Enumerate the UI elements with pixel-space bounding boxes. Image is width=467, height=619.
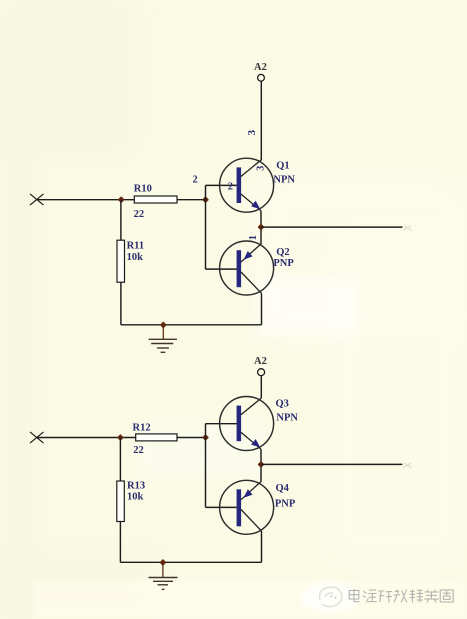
Q4 emitter pin	[241, 481, 262, 500]
Q1 base bar	[237, 167, 242, 203]
wire input horizontal (top)	[37, 199, 206, 201]
transistor Q3	[206, 397, 299, 451]
wire bottom (bottom circuit)	[120, 561, 261, 563]
svg-text:10k: 10k	[127, 252, 144, 263]
wire bottom (top circuit)	[121, 324, 262, 326]
svg-text:10k: 10k	[127, 492, 144, 503]
ghost mark at top output wire end	[403, 226, 412, 231]
svg-text:3: 3	[256, 166, 267, 171]
svg-text:22: 22	[134, 209, 145, 220]
Q2 base pin wire	[206, 268, 237, 270]
Q2 base bar	[237, 250, 242, 287]
junction output (bottom)	[258, 461, 265, 468]
svg-text:2: 2	[193, 175, 198, 186]
wire output (top)	[261, 226, 403, 228]
junction at base net (bottom)	[202, 434, 209, 441]
terminal A2 (top)	[258, 74, 265, 81]
terminal A2 (bottom)	[258, 369, 265, 376]
R10 body	[134, 196, 177, 203]
svg-text:A2: A2	[254, 356, 267, 367]
Q3 emitter arrow	[251, 439, 260, 448]
Q1 body circle	[220, 158, 274, 212]
Q4 collector pin	[241, 510, 262, 532]
junction at R13 tap	[117, 434, 124, 441]
junction at base net	[202, 196, 209, 203]
svg-text:PNP: PNP	[273, 258, 294, 269]
watermark logo	[320, 587, 342, 607]
svg-text:1: 1	[248, 235, 259, 240]
resistor R10	[134, 184, 177, 221]
ground (bottom)	[149, 562, 178, 589]
wire vertical base bus (bottom)	[205, 424, 207, 508]
ground bars	[149, 577, 178, 579]
node input cross (bottom)	[30, 432, 44, 443]
ground bars	[149, 338, 177, 340]
wire output (bottom)	[261, 463, 402, 465]
Q2 emitter arrow	[244, 251, 253, 260]
Q4 body circle	[220, 480, 274, 534]
ghost mark at bottom output wire end	[403, 463, 412, 468]
svg-text:A2: A2	[254, 62, 267, 73]
wire emitter to output node (top)	[260, 211, 262, 244]
svg-text:R10: R10	[134, 184, 152, 195]
wire R11 bottom lead	[120, 282, 122, 325]
ground stem	[162, 325, 164, 339]
wire vertical base bus (top)	[205, 185, 207, 269]
junction output (top)	[258, 224, 265, 231]
wire Q4 collector down (bottom circuit)	[261, 531, 263, 562]
wire Q2 collector down (top circuit)	[261, 293, 263, 325]
R13 body	[117, 481, 125, 522]
transistor Q1	[206, 158, 296, 212]
wire emitter to output node (bottom)	[260, 449, 262, 481]
Q3 base pin wire	[206, 423, 237, 425]
wire input horizontal (bottom)	[37, 437, 206, 439]
wire R13 bottom lead	[119, 522, 121, 563]
R12 body	[136, 434, 177, 441]
svg-text:NPN: NPN	[273, 174, 295, 185]
ground (top)	[149, 325, 177, 352]
svg-text:NPN: NPN	[276, 413, 298, 424]
transistor Q4	[206, 480, 296, 534]
Q2 emitter pin	[241, 243, 262, 262]
svg-text:R11: R11	[127, 241, 145, 252]
resistor R13	[117, 438, 145, 563]
ground stem	[162, 562, 164, 577]
svg-text:2: 2	[228, 182, 233, 193]
Q3 emitter pin	[241, 432, 261, 449]
node input cross (top)	[30, 194, 44, 205]
Q4 base pin wire	[206, 506, 237, 508]
Q1 emitter pin	[241, 194, 261, 211]
Q3 collector pin	[241, 398, 261, 415]
svg-text:Q4: Q4	[276, 483, 290, 494]
R11 body	[117, 240, 125, 282]
watermark text 电源研发精英圈	[349, 589, 453, 602]
resistor R12	[133, 422, 178, 455]
junction at ground (top)	[160, 321, 167, 328]
Q4 emitter arrow	[244, 489, 253, 498]
Q3 body circle	[220, 397, 274, 451]
resistor R11	[117, 200, 144, 325]
svg-text:Q3: Q3	[276, 398, 289, 409]
wire R13 top lead	[119, 438, 121, 482]
wire collector to A2 (bottom)	[260, 376, 262, 398]
Q4 base bar	[237, 489, 242, 526]
svg-text:Q1: Q1	[276, 161, 289, 172]
Q1 collector pin	[241, 160, 261, 177]
junction at ground (bottom)	[159, 559, 166, 566]
svg-text:22: 22	[133, 445, 144, 456]
svg-text:Q2: Q2	[276, 247, 289, 258]
Q1 base pin wire	[206, 184, 237, 186]
svg-text:R13: R13	[127, 480, 145, 491]
Q3 base bar	[237, 406, 242, 442]
Q2 collector pin	[241, 272, 262, 293]
wire collector to A2 (top)	[260, 81, 262, 160]
Q2 body circle	[220, 241, 274, 295]
svg-text:3: 3	[246, 129, 258, 135]
svg-text:R12: R12	[133, 422, 151, 433]
svg-text:PNP: PNP	[275, 498, 296, 509]
transistor Q2	[206, 241, 295, 295]
junction at R11 tap	[118, 196, 125, 203]
Q1 emitter arrow	[251, 201, 260, 210]
wire R11 top lead	[120, 200, 122, 241]
